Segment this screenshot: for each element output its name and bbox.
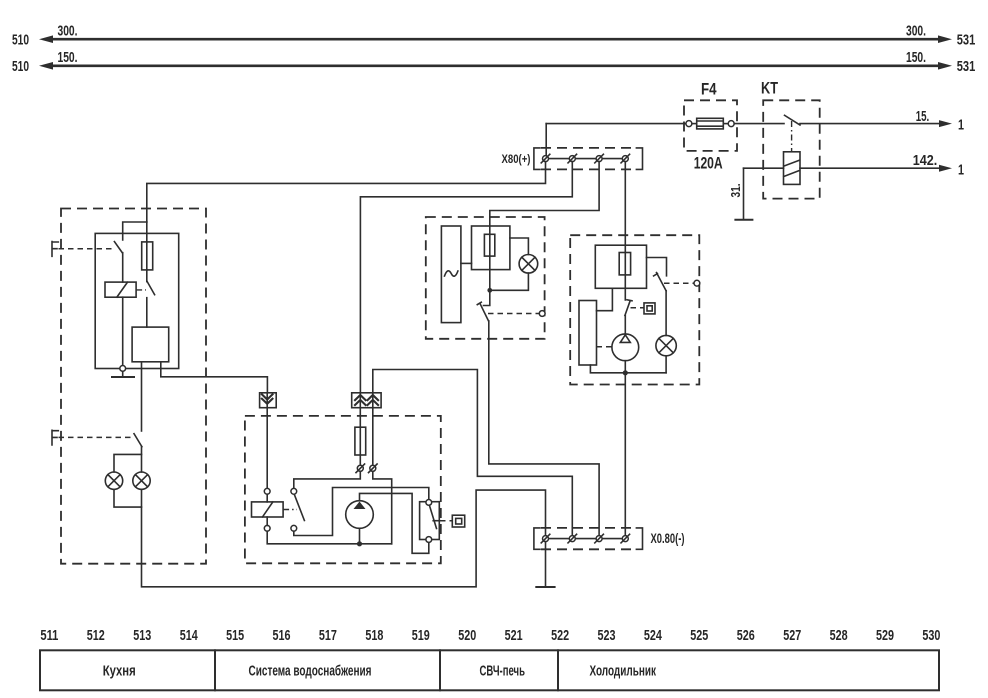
relay KT xyxy=(761,79,820,199)
svg-text:523: 523 xyxy=(598,627,616,644)
svg-text:Кухня: Кухня xyxy=(103,664,136,680)
svg-text:Система водоснабжения: Система водоснабжения xyxy=(249,664,372,680)
svg-text:519: 519 xyxy=(412,627,430,644)
wire pump bottom to rail xyxy=(359,528,361,544)
fuse water xyxy=(355,409,366,464)
actuator link svch xyxy=(488,311,545,317)
wire switch to coil xyxy=(122,253,124,282)
float switch housing xyxy=(420,502,440,540)
svg-text:522: 522 xyxy=(551,627,569,644)
wire load box to water connector xyxy=(161,362,268,392)
wire bus 300 top xyxy=(39,35,952,43)
wire pump top to switch bottom xyxy=(360,493,429,553)
svg-text:528: 528 xyxy=(830,627,848,644)
svg-text:516: 516 xyxy=(273,627,291,644)
sensor water level xyxy=(452,515,464,527)
junction pump rail xyxy=(357,541,362,546)
svg-text:KT: KT xyxy=(761,79,778,98)
pin 1 of X080 xyxy=(541,534,550,543)
pin 3 of X80 xyxy=(595,154,604,163)
svg-text:525: 525 xyxy=(690,627,708,644)
svg-text:524: 524 xyxy=(644,627,662,644)
svg-text:510: 510 xyxy=(12,31,29,48)
wire load box down to lamp switch xyxy=(141,362,143,431)
wire fuse box to thermostat box xyxy=(597,288,613,310)
svg-text:510: 510 xyxy=(12,58,29,75)
pin 2 of X080 xyxy=(568,534,577,543)
wire fuse box to door switch xyxy=(647,258,667,276)
svg-text:1: 1 xyxy=(958,117,964,134)
fuse holder box svch xyxy=(472,226,510,270)
connector pin water right xyxy=(369,464,378,473)
wire 31 from coil left xyxy=(744,168,784,219)
pressure switch contacts xyxy=(291,488,305,531)
svg-text:515: 515 xyxy=(226,627,244,644)
svg-text:526: 526 xyxy=(737,627,755,644)
wire svch to X080 pin3 xyxy=(489,321,599,536)
inverter svch xyxy=(441,226,461,323)
wire pin2 to water connector xyxy=(360,162,572,392)
svg-text:521: 521 xyxy=(505,627,523,644)
switch svch xyxy=(477,290,490,321)
svg-text:120A: 120A xyxy=(694,154,723,173)
pin 2 of X80 xyxy=(568,154,577,163)
wire coil to ground node xyxy=(122,297,124,365)
ground kitchen xyxy=(112,371,134,377)
svg-text:150.: 150. xyxy=(58,49,78,66)
relay coil water xyxy=(252,494,298,517)
load box kitchen xyxy=(132,327,169,362)
wire pin4 to fridge xyxy=(624,162,626,300)
manual symbol F lower xyxy=(52,430,131,445)
svg-text:531: 531 xyxy=(957,31,976,48)
wire kitchen return to X080 pin1 xyxy=(142,490,546,587)
switch fridge door xyxy=(654,273,667,291)
manual symbol F upper xyxy=(52,242,112,257)
wire kitchen feed jog xyxy=(123,222,147,240)
wire contact to load xyxy=(146,298,148,327)
wire pin1 to ground xyxy=(545,542,547,587)
switch kitchen lamps xyxy=(134,434,142,447)
connector block X0.80(-) xyxy=(534,528,643,549)
wire 15. to right xyxy=(800,120,952,127)
wire fridge to X080 pin4 xyxy=(624,373,626,536)
relay coil kitchen xyxy=(105,282,136,297)
svg-text:Холодильник: Холодильник xyxy=(589,664,656,680)
actuator link float switch xyxy=(440,520,452,522)
wire pin1 to kitchen xyxy=(147,162,546,222)
svg-text:513: 513 xyxy=(133,627,151,644)
ground below KT xyxy=(735,219,752,221)
svg-text:300.: 300. xyxy=(906,23,926,40)
relay contact kitchen xyxy=(136,270,155,295)
svg-text:X0.80(-): X0.80(-) xyxy=(651,530,685,546)
pump motor xyxy=(346,501,374,529)
wire 142. from coil xyxy=(800,165,952,172)
wire fridge bottom rail xyxy=(590,365,666,373)
svg-text:527: 527 xyxy=(783,627,801,644)
connector pin water left xyxy=(356,464,365,473)
svg-text:531: 531 xyxy=(957,58,976,75)
svg-text:15.: 15. xyxy=(916,108,930,125)
wire switch to lamp branch xyxy=(114,447,142,472)
switch contact KT xyxy=(785,115,801,151)
wire pin to pressure switch xyxy=(294,471,361,488)
junction fridge rail xyxy=(623,370,628,375)
pin 3 of X080 xyxy=(595,534,604,543)
device box kitchen xyxy=(95,233,179,368)
svg-text:142.: 142. xyxy=(913,152,938,169)
svg-text:530: 530 xyxy=(922,627,940,644)
svg-text:31.: 31. xyxy=(728,184,743,198)
wire coil bottom to rail xyxy=(267,517,392,544)
wire bus 150 second xyxy=(39,62,952,70)
terminal coil top xyxy=(264,488,270,494)
fuse fridge xyxy=(619,253,630,275)
float switch contacts xyxy=(426,500,439,543)
thermostat box fridge xyxy=(579,301,597,366)
lamp fridge xyxy=(656,335,676,372)
svg-text:518: 518 xyxy=(365,627,383,644)
enclosure svch dashed box xyxy=(426,217,545,339)
actuator link fridge door xyxy=(664,280,700,286)
svg-text:150.: 150. xyxy=(906,49,926,66)
pin 1 of X80 xyxy=(541,154,550,163)
svg-text:529: 529 xyxy=(876,627,894,644)
svg-text:520: 520 xyxy=(458,627,476,644)
lamp svch xyxy=(490,238,538,290)
connector block X80(+) xyxy=(534,148,643,170)
lamp kitchen 1 xyxy=(105,472,122,489)
wire switch to lamp xyxy=(665,291,667,336)
connector plug chevrons up xyxy=(352,393,381,408)
fuse kitchen xyxy=(142,222,153,270)
wire socket to coil xyxy=(266,409,268,488)
wire thermostat to compressor xyxy=(624,316,626,335)
pin 4 of X80 xyxy=(621,154,630,163)
legend table frame xyxy=(40,650,939,690)
enclosure water dashed box xyxy=(245,416,441,563)
sensor link compressor xyxy=(597,346,612,348)
wire lamp loop bottom xyxy=(114,489,142,507)
wire main feed to F4 xyxy=(546,123,686,125)
svg-text:511: 511 xyxy=(40,627,58,644)
svg-text:1: 1 xyxy=(958,161,964,178)
lamp kitchen 2 xyxy=(133,454,150,489)
svg-text:512: 512 xyxy=(87,627,105,644)
wire pressure switch to pump switch xyxy=(294,488,429,536)
fuse holder box fridge xyxy=(595,245,646,288)
svg-text:517: 517 xyxy=(319,627,337,644)
wire compressor to rail xyxy=(624,361,626,373)
pin 4 of X080 xyxy=(621,534,630,543)
wire pin1 up to feed xyxy=(545,124,547,156)
wire pin to pump rail xyxy=(373,471,392,544)
fuse svch xyxy=(484,234,494,256)
enclosure kitchen dashed box xyxy=(61,209,206,564)
svg-text:300.: 300. xyxy=(58,23,78,40)
wire plug pin2 down xyxy=(372,409,374,464)
terminal coil bottom xyxy=(264,525,270,531)
switch thermostat xyxy=(625,300,644,316)
ground below X080 xyxy=(536,586,554,588)
connector socket chevrons down xyxy=(260,393,277,408)
junction terminal kitchen xyxy=(120,366,126,372)
svg-text:X80(+): X80(+) xyxy=(502,152,531,166)
wire inverter to fuse box xyxy=(461,262,472,264)
wire plug pin to X080 pin2 xyxy=(373,370,573,536)
sensor thermostat xyxy=(644,303,655,314)
svg-text:СВЧ-печь: СВЧ-печь xyxy=(479,664,525,680)
svg-text:514: 514 xyxy=(180,627,198,644)
svg-text:F4: F4 xyxy=(701,80,717,99)
relay coil KT xyxy=(784,152,801,185)
wire pin3 to svch xyxy=(490,162,599,291)
compressor motor fridge xyxy=(612,334,639,361)
fuse F4 xyxy=(684,80,784,151)
junction svch xyxy=(487,288,492,293)
switch kitchen relay feed xyxy=(114,242,122,253)
enclosure fridge dashed box xyxy=(570,235,699,384)
